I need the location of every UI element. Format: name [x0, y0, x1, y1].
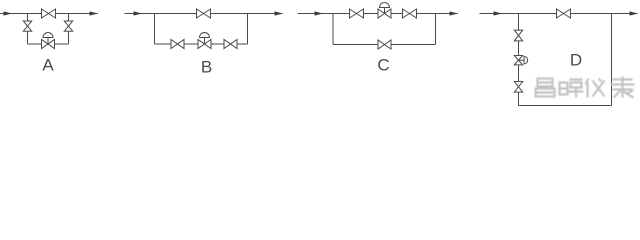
valve C bypass (bowtie): [378, 40, 391, 49]
flow arrow D left: [494, 11, 503, 15]
valve C main left (bowtie): [350, 9, 364, 18]
svg-text:C: C: [377, 56, 389, 75]
control valve C stem: [384, 8, 386, 14]
valve C main right (bowtie): [403, 9, 417, 18]
wire C bottom bypass: [333, 44, 436, 46]
svg-text:B: B: [201, 58, 212, 77]
wire main line C: [298, 13, 458, 15]
wire A left branch: [27, 14, 29, 45]
svg-text:A: A: [42, 56, 54, 75]
control valve A body: [42, 40, 55, 49]
control valve C actuator dome: [380, 3, 390, 8]
wire D right branch: [611, 14, 613, 106]
wire B bottom bypass: [155, 43, 248, 45]
control valve D body (vertical bowtie): [514, 56, 522, 65]
valve D branch top (vertical bowtie): [514, 30, 522, 41]
wire main line A: [0, 13, 98, 15]
flow arrow A right: [90, 11, 99, 15]
svg-text:D: D: [570, 51, 582, 70]
wire C left branch: [332, 14, 334, 45]
wire A bottom bypass: [28, 43, 69, 45]
control valve B stem: [204, 38, 206, 45]
wire C right branch: [435, 14, 437, 45]
wire B right branch: [247, 14, 249, 45]
flow arrow D right: [630, 11, 639, 15]
flow arrow C left: [315, 11, 324, 15]
flow arrow B right: [275, 11, 284, 15]
valve B bypass right (bowtie): [224, 40, 237, 49]
valve A main (bowtie): [42, 9, 56, 18]
watermark char 表: [611, 77, 635, 98]
watermark char 仪: [586, 79, 605, 98]
watermark char 昌: [536, 79, 555, 97]
control valve D stem: [519, 59, 525, 61]
valve B bypass left (bowtie): [171, 40, 184, 49]
wire main line B: [125, 13, 283, 15]
wire A right branch: [68, 14, 70, 45]
valve A right branch (vertical bowtie): [64, 21, 72, 31]
control valve C body: [378, 9, 391, 18]
valve B main (bowtie): [197, 9, 211, 18]
flow arrow B left: [134, 11, 143, 15]
wire main line D: [480, 13, 638, 15]
control valve B actuator dome: [200, 33, 210, 38]
flow arrow A left: [4, 11, 13, 15]
wire D left branch: [518, 14, 520, 106]
control valve B body: [198, 40, 211, 49]
valve D branch bottom (vertical bowtie): [514, 82, 522, 93]
flow arrow C right: [450, 11, 459, 15]
control valve A actuator dome: [43, 33, 53, 38]
wire D bottom: [519, 105, 612, 107]
valve A left branch (vertical bowtie): [23, 21, 31, 31]
watermark char 晖: [560, 80, 584, 98]
control valve D actuator dome (sideways): [524, 57, 528, 64]
control valve A stem: [47, 38, 49, 45]
valve D main (bowtie): [557, 9, 571, 18]
wire B left branch: [154, 14, 156, 45]
